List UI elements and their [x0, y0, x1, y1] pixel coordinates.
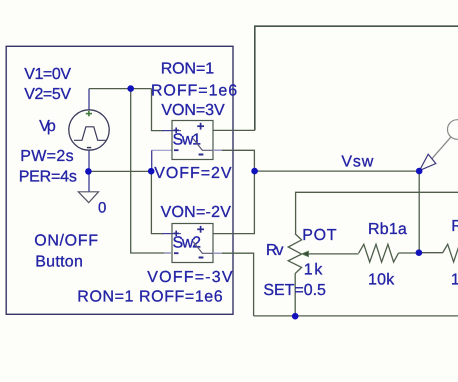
Sw2 plus left	[173, 231, 179, 237]
svg-text:RON=1 ROFF=1e6: RON=1 ROFF=1e6	[77, 288, 222, 305]
probe bubble	[448, 120, 458, 140]
svg-text:ROFF=1e6: ROFF=1e6	[151, 82, 237, 99]
Sw2 plus right	[197, 226, 204, 233]
svg-text:V1=0V: V1=0V	[24, 66, 71, 83]
svg-text:PW=2s: PW=2s	[20, 148, 73, 165]
wire rail down to Sw2 plus control	[151, 171, 163, 233]
wire Sw1 bottom-right down to Vsw node	[213, 150, 254, 171]
svg-text:Rv: Rv	[266, 242, 284, 259]
svg-text:R: R	[451, 218, 458, 235]
svg-text:1: 1	[451, 272, 458, 289]
svg-text:Vsw: Vsw	[341, 154, 373, 171]
Sw1 plus left	[173, 128, 179, 134]
Sw2 minus left	[174, 252, 179, 254]
Sw2 left pin pole	[172, 233, 181, 235]
wire Rb1a right to node	[398, 252, 419, 254]
wire source top node down to Sw2 minus control	[131, 89, 172, 253]
junction dot Rb1a right	[416, 249, 423, 256]
svg-text:Vp: Vp	[39, 118, 56, 135]
potentiometer Rv zigzag	[288, 234, 301, 274]
svg-text:Sw2: Sw2	[173, 235, 202, 252]
wire Rv top to right edge	[296, 192, 458, 233]
junction dot source bottom	[85, 168, 92, 175]
block outline ON/OFF button box	[6, 46, 233, 314]
voltage source minus mark	[87, 147, 91, 149]
wire wiper to Rb1a	[305, 253, 359, 255]
svg-text:10k: 10k	[368, 272, 395, 289]
wire bottom rail	[254, 315, 458, 317]
svg-text:V2=5V: V2=5V	[24, 86, 71, 103]
wire Sw2 bottom-right down to bottom rail	[213, 253, 254, 316]
svg-text:SET=0.5: SET=0.5	[263, 282, 326, 299]
wire Vsw	[255, 170, 420, 172]
wire source bottom to ground	[88, 150, 90, 191]
Sw1 plus right	[197, 123, 204, 130]
svg-text:VON=3V: VON=3V	[161, 102, 225, 119]
wire top rail	[255, 26, 458, 130]
resistor Rb1a zigzag	[359, 244, 399, 262]
switch U1 Sw1 box	[172, 121, 213, 160]
svg-text:0: 0	[98, 200, 106, 217]
Rv bottom wire	[294, 274, 296, 316]
voltage source plus mark	[86, 111, 92, 116]
Rv wiper arrow	[302, 251, 309, 257]
svg-text:PER=4s: PER=4s	[19, 169, 77, 186]
junction dot pot bottom	[292, 313, 299, 320]
wire node to right resistor	[419, 252, 443, 254]
Sw1 minus right	[199, 154, 204, 156]
Sw1 blade	[193, 139, 202, 151]
Sw2 left bottom stub periwinkle	[164, 252, 172, 254]
junction dot Vsw right	[416, 168, 423, 175]
Sw1 blade exit	[202, 149, 213, 151]
svg-text:Rb1a: Rb1a	[368, 221, 407, 238]
svg-text:POT: POT	[302, 227, 336, 244]
svg-text:VON=-2V: VON=-2V	[161, 204, 232, 221]
junction dot control rail	[148, 168, 155, 175]
voltage source pulse waveform	[74, 127, 106, 141]
resistor right partial zigzag	[443, 244, 458, 262]
svg-text:Sw1: Sw1	[173, 132, 202, 149]
Sw2 blade	[193, 242, 202, 254]
svg-text:VOFF=2V: VOFF=2V	[154, 165, 232, 182]
wire Vsw node down to Rb1a node	[418, 171, 420, 253]
voltage source Vp circle	[69, 110, 109, 150]
wire source top node	[88, 89, 90, 110]
svg-text:1k: 1k	[304, 262, 324, 279]
wire source top to Sw1 plus control	[152, 89, 164, 131]
probe arrowhead	[420, 154, 436, 170]
svg-text:Button: Button	[35, 253, 83, 270]
svg-text:ON/OFF: ON/OFF	[34, 233, 98, 250]
svg-text:RON=1: RON=1	[161, 61, 215, 78]
wire source bottom rail to Sw node	[88, 170, 151, 172]
junction dot Vsw left	[251, 168, 258, 175]
wire Sw2 top-right up to Vsw node	[213, 171, 254, 234]
Sw1 left pin pole	[172, 130, 181, 132]
Sw2 minus right	[199, 257, 204, 259]
Sw2 blade exit	[202, 252, 213, 254]
probe shaft	[432, 137, 451, 158]
Sw1 minus left	[174, 149, 179, 151]
wire Sw1 top-right to rail	[213, 129, 255, 131]
ground 0	[78, 192, 98, 203]
switch U2 Sw2 box	[172, 224, 213, 263]
wire Sw1 minus control down to rail	[152, 149, 172, 151]
junction dot source top	[127, 85, 134, 92]
svg-text:VOFF=-3V: VOFF=-3V	[147, 269, 233, 286]
